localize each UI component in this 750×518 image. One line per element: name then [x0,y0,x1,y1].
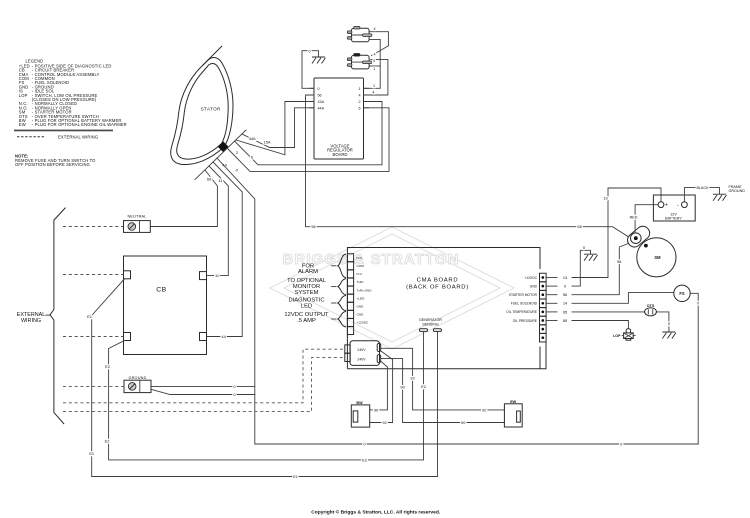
brace: 12vdc output [338,311,346,327]
svg-text:0: 0 [308,49,310,53]
svg-text:SENSING: SENSING [422,323,439,327]
svg-text:4: 4 [373,52,375,56]
svg-text:N.C.: N.C. [357,272,363,276]
brace: diagnostic led [338,295,346,310]
over temperature switch OTS [645,304,657,316]
svg-text:GROUND: GROUND [128,376,146,380]
svg-text:BOARD: BOARD [333,152,348,157]
wire 15A (stator to regulator pin 15A) [236,102,314,155]
svg-text:LED: LED [301,304,312,310]
svg-text:FRAME: FRAME [729,185,742,189]
svg-text:+LED: +LED [357,296,366,300]
svg-text:OFF POSITION BEFORE SERVICING: OFF POSITION BEFORE SERVICING [15,162,90,167]
wire black (battery - to frame ground) [684,188,719,202]
wire 14 (CMA fuel solenoid to FS) [572,293,674,304]
wire 56 (regulator pin 56 to starter solenoid) [306,95,631,238]
battery 12V [653,195,695,221]
svg-text:56: 56 [311,224,315,229]
low oil pressure switch LOP [613,329,635,341]
wire 0 (FS to ground net) [690,293,698,444]
ground (regulator) [312,57,326,64]
svg-text:GENERATOR: GENERATOR [419,318,442,322]
svg-text:FS: FS [679,291,685,296]
connector P1 (top plug) [347,26,372,41]
stator connector (black) [218,141,229,152]
svg-text:- PLUG FOR OPTIONAL ENGINE OIL: - PLUG FOR OPTIONAL ENGINE OIL WARMER [32,122,127,127]
svg-text:E2: E2 [421,384,426,389]
svg-text:OIL PRESSURE: OIL PRESSURE [513,319,538,323]
wire 66 (stator to neutral terminal) [151,170,218,227]
wire 4 (P1 to P2) [369,32,388,56]
svg-text:WIRING: WIRING [21,318,41,324]
svg-text:92: 92 [382,420,386,425]
svg-text:BATTERY: BATTERY [665,217,682,221]
wire 0 (stator to ground net) [217,158,698,444]
svg-text:12V: 12V [670,212,677,216]
svg-text:N.O: N.O [357,256,363,260]
svg-text:56: 56 [577,224,581,229]
svg-text:LOP: LOP [19,93,28,98]
dashed external wire to CB line 1 [63,274,124,276]
CMA board (control module assembly) [347,248,546,369]
svg-text:4: 4 [373,27,375,31]
wire 0 (OTS to ground) [656,312,669,332]
svg-text:+12VDC: +12VDC [357,321,370,325]
svg-text:56: 56 [318,94,322,98]
dashed external wire to CB line 2 [63,336,124,338]
svg-text:ALARM: ALARM [298,269,318,275]
wire 0 (ground terminal lower) [151,389,255,394]
svg-text:GND: GND [357,313,365,317]
connector 240V (CMA) [345,341,381,366]
svg-text:2: 2 [358,100,360,104]
svg-text:6: 6 [358,106,360,110]
dashed external wire to ground terminal [63,385,124,387]
svg-text:56: 56 [563,292,567,297]
wire 4 (P2 to regulator pin 4) [364,59,388,95]
wire 90 (240V to BW) [370,361,388,410]
svg-text:15A: 15A [318,100,325,104]
svg-text:1: 1 [373,67,375,71]
fuel solenoid FS [674,285,690,301]
svg-text:92: 92 [482,407,486,412]
svg-text:4: 4 [372,91,374,95]
frame ground [713,194,727,201]
svg-text:FUEL SOLENOID: FUEL SOLENOID [511,302,538,306]
stator [171,46,246,180]
svg-text:11: 11 [219,178,223,183]
svg-text:Copyright © Briggs & Stratton,: Copyright © Briggs & Stratton, LLC. All … [311,509,441,516]
svg-text:1: 1 [358,87,360,91]
svg-text:56: 56 [617,259,621,264]
legend [14,59,127,167]
ground (near starter motor) [584,254,598,261]
wire E2 (CB to generator sensing) [109,331,424,460]
voltage regulator board U-VR [310,78,369,159]
circuit breaker CB [124,256,207,355]
svg-text:E1: E1 [293,474,298,479]
svg-text:(BACK OF BOARD): (BACK OF BOARD) [406,285,469,291]
stator lead bus [195,130,246,180]
svg-text:GROUND: GROUND [729,189,746,193]
svg-text:NEUTRAL: NEUTRAL [127,214,146,218]
svg-text:EXTERNAL: EXTERNAL [17,312,45,318]
connector EW (engine oil warmer plug) [504,400,522,427]
svg-text:SYSTEM: SYSTEM [295,290,319,296]
svg-text:-: - [677,203,679,209]
watermark Briggs & Stratton logo [270,227,514,349]
svg-text:E1: E1 [87,314,92,319]
svg-text:6: 6 [251,154,253,159]
wire 1 (P1/P2 to regulator pin 1) [364,39,381,88]
svg-text:TxRx: TxRx [357,280,365,284]
svg-text:92: 92 [410,376,414,381]
brace: to optional monitor system [338,279,346,295]
svg-text:0: 0 [318,87,320,91]
wire 0 (ground terminal upper) [151,385,255,387]
svg-text:CB: CB [156,287,166,294]
external wiring brace [50,208,66,424]
neutral terminal block [124,214,151,232]
svg-text:E2: E2 [105,364,110,369]
brace: for alarm [338,254,346,278]
svg-text:95: 95 [563,309,567,314]
svg-text:44A: 44A [318,106,325,110]
svg-text:+12VDC: +12VDC [524,276,537,280]
starter motor SM [625,224,676,277]
svg-text:EXTERNAL WIRING: EXTERNAL WIRING [58,134,98,139]
dashed external wire to 240V pin 2 [63,358,345,412]
svg-text:GND: GND [357,305,365,309]
svg-text:13: 13 [603,195,607,200]
svg-text:STATOR: STATOR [201,107,221,112]
svg-text:66: 66 [207,177,211,182]
svg-text:13: 13 [563,275,567,280]
generator sensing terminals [419,318,442,331]
wire 92 (240V to EW) [381,348,505,410]
wire 6 (stator to regulator pin 6, loop under board) [228,108,390,172]
svg-text:SM: SM [654,255,661,260]
svg-text:.5 AMP: .5 AMP [297,318,316,324]
svg-text:0: 0 [697,302,699,306]
dashed external wire to neutral [63,226,124,228]
wire 0 (CMA GND to ground) [572,250,591,286]
wire 44 (stator to CB) [207,162,243,337]
wire 90 (240V to EW) [381,359,505,423]
wire 2 (stator to regulator pin 2, loop under board) [235,102,382,165]
wire 44A (stator to regulator pin 44A) [242,108,314,148]
ground terminal block [124,376,151,393]
svg-text:TxRx GND: TxRx GND [357,288,373,292]
svg-text:4: 4 [373,59,375,63]
svg-text:EW: EW [19,122,26,127]
svg-text:E1: E1 [89,451,94,456]
svg-text:2: 2 [236,150,238,155]
svg-text:RED: RED [630,216,638,220]
wire 95 (CMA oil temperature to OTS) [572,311,645,313]
svg-text:BLACK: BLACK [697,186,710,190]
wire E1 (CB to generator sensing) [92,279,438,477]
svg-text:4: 4 [358,94,360,98]
CMA right pin column [506,273,568,342]
svg-text:GND: GND [530,284,538,288]
connector BW (battery warmer plug) [351,401,369,427]
starter solenoid [625,224,652,250]
wire red (battery + to solenoid) [635,205,658,233]
svg-text:15A: 15A [264,139,271,144]
svg-text:E2: E2 [362,457,367,462]
dashed external wire to 240V pin 1 [63,349,345,403]
svg-text:240V: 240V [357,358,366,362]
svg-text:LOP: LOP [613,334,621,338]
svg-text:COM: COM [357,264,365,268]
svg-text:OIL TEMPERATURE: OIL TEMPERATURE [506,310,538,314]
wire 92 (240V to BW) [370,351,393,423]
svg-text:E2: E2 [105,439,110,444]
wire 56 (CMA starter motor to solenoid) [572,242,632,294]
svg-text:11: 11 [215,273,219,278]
wire 11 (stator to CB) [207,166,229,276]
wire 13 (CMA +12VDC to battery +) [572,188,661,278]
svg-text:44A: 44A [249,136,256,141]
svg-text:CMA BOARD: CMA BOARD [417,277,459,283]
svg-text:+: + [665,203,668,209]
connector P2 (lower plug) [347,54,372,69]
svg-text:240V: 240V [357,348,366,352]
svg-text:85: 85 [563,318,567,323]
wire 0 (regulator pin 0 to ground) [302,51,319,89]
svg-text:1: 1 [373,84,375,88]
wire 85 (CMA oil pressure to LOP) [572,321,628,329]
svg-text:STARTER MOTOR: STARTER MOTOR [509,293,538,297]
